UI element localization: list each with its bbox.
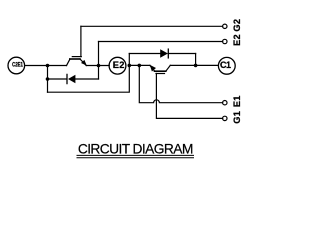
terminal G2	[223, 24, 227, 28]
wire D1 anode riser	[128, 54, 130, 66]
node dot2	[138, 64, 142, 68]
terminal E1	[223, 101, 227, 105]
wire G2 rail	[81, 25, 223, 27]
wire Q1 gate drop	[156, 74, 222, 119]
terminal C2E1	[8, 57, 25, 74]
svg-text:E2: E2	[113, 60, 125, 70]
wire E2 aux riser	[98, 42, 100, 80]
node D1 cathode junction	[194, 64, 198, 68]
wire Q1 collector to C1	[170, 64, 218, 66]
svg-text:CIRCUIT DIAGRAM: CIRCUIT DIAGRAM	[78, 142, 193, 157]
terminal E2 aux	[223, 39, 227, 43]
node C2E1 junction	[46, 64, 50, 68]
wire vertical C2E1 down	[47, 66, 49, 93]
transistor Q1	[150, 65, 171, 74]
svg-text:G1: G1	[232, 111, 242, 124]
wire Q2 gate riser	[80, 26, 82, 56]
terminal G1	[223, 116, 227, 120]
diode D1	[129, 49, 195, 58]
transistor Q2	[67, 57, 87, 66]
svg-text:E1: E1	[232, 95, 242, 107]
svg-text:C1: C1	[220, 60, 231, 70]
wire Q2 emitter to E2	[86, 65, 109, 67]
svg-text:G2: G2	[232, 19, 242, 32]
wire E2 aux rail	[99, 41, 223, 43]
title CIRCUIT DIAGRAM	[77, 142, 195, 158]
wire C2E1 to Q2 collector	[25, 65, 67, 67]
svg-text:E2: E2	[232, 34, 242, 46]
terminal E2	[109, 57, 126, 74]
wire D1 cathode drop	[195, 54, 197, 66]
node diode D2 cathode junction	[46, 77, 50, 81]
node dot1	[128, 64, 132, 68]
svg-text:C2E1: C2E1	[12, 62, 23, 69]
diode D2	[48, 74, 99, 83]
wire Q1 emitter segment	[129, 64, 150, 66]
wire bottom rail	[48, 65, 130, 92]
wire E1 branch	[139, 65, 222, 102]
node E2 junction	[97, 64, 101, 68]
terminal C1	[218, 57, 235, 74]
